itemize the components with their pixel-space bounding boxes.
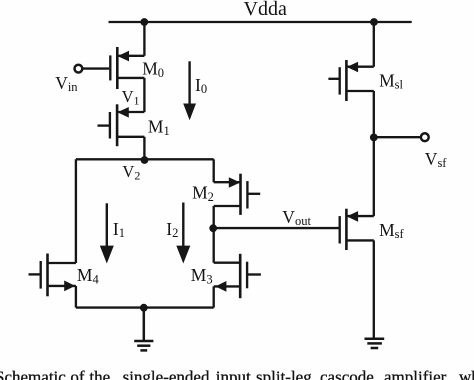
svg-text:I1: I1 bbox=[113, 219, 125, 240]
svg-text:Vsf: Vsf bbox=[425, 149, 448, 170]
svg-text:M1: M1 bbox=[148, 117, 170, 139]
svg-text:V2: V2 bbox=[122, 162, 140, 183]
svg-text:I2: I2 bbox=[166, 219, 178, 240]
svg-text:M4: M4 bbox=[77, 265, 100, 287]
svg-text:I0: I0 bbox=[195, 75, 207, 96]
svg-text:Vout: Vout bbox=[282, 207, 311, 228]
svg-text:Vin: Vin bbox=[55, 73, 78, 94]
svg-text:Vdda: Vdda bbox=[244, 0, 287, 20]
svg-text:M0: M0 bbox=[142, 59, 164, 81]
svg-text:Msl: Msl bbox=[379, 70, 403, 91]
svg-text:M2: M2 bbox=[192, 183, 214, 205]
svg-text:V1: V1 bbox=[122, 87, 140, 108]
svg-text:Schematicofthesingle-endedinpu: Schematicofthesingle-endedinputsplit-leg… bbox=[0, 367, 474, 380]
svg-text:M3: M3 bbox=[191, 265, 213, 287]
svg-text:Msf: Msf bbox=[379, 220, 404, 241]
